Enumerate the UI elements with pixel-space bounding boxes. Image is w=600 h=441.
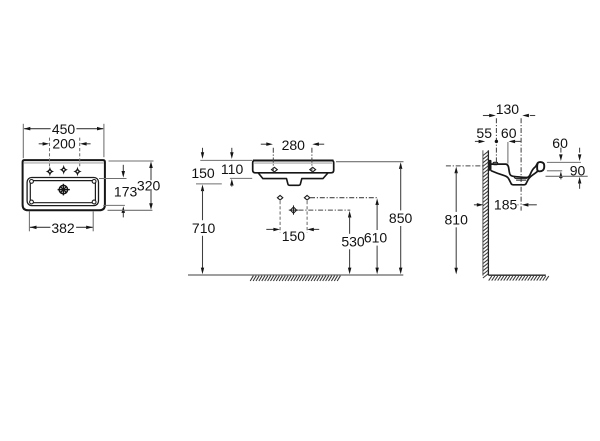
svg-text:280: 280 [282, 137, 306, 153]
svg-text:173: 173 [114, 184, 138, 200]
svg-text:200: 200 [52, 136, 76, 152]
svg-text:850: 850 [389, 210, 413, 226]
svg-text:320: 320 [137, 177, 161, 193]
svg-text:185: 185 [494, 197, 518, 213]
svg-text:450: 450 [52, 121, 76, 137]
svg-text:150: 150 [191, 165, 215, 181]
svg-text:610: 610 [364, 230, 388, 246]
svg-text:60: 60 [501, 125, 517, 141]
svg-text:90: 90 [570, 162, 586, 178]
svg-text:150: 150 [282, 228, 306, 244]
svg-text:110: 110 [221, 161, 244, 177]
svg-text:530: 530 [341, 234, 365, 250]
svg-text:382: 382 [51, 220, 75, 236]
svg-text:130: 130 [496, 101, 520, 117]
svg-text:55: 55 [476, 125, 492, 141]
svg-text:810: 810 [445, 212, 469, 228]
svg-text:60: 60 [552, 135, 568, 151]
svg-text:710: 710 [192, 220, 216, 236]
